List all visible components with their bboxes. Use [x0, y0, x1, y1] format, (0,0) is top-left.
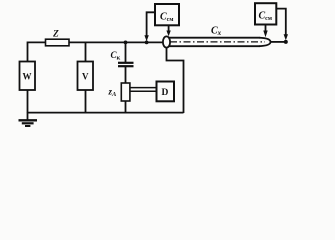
wire CK branch upper [125, 42, 127, 62]
wire bottom rail [28, 112, 184, 114]
wire top rail left segment [27, 41, 46, 43]
svg-text:Cк: Cк [111, 50, 121, 62]
tube left end electrode [163, 36, 170, 47]
wire W branch (top) [27, 42, 29, 62]
wire CK to ZA [125, 66, 127, 83]
wire top rail right segment [69, 41, 164, 43]
node right end [284, 40, 288, 44]
wire V branch (top) [85, 42, 87, 62]
ground [27, 113, 29, 120]
svg-text:Cсм: Cсм [160, 12, 173, 24]
box Csm right (capacitance meter) [255, 3, 276, 24]
wire twin-lead to D [130, 87, 157, 89]
svg-text:Cx: Cx [211, 26, 222, 38]
capacitor Cx tube body [167, 37, 260, 39]
resistor Z [46, 39, 70, 46]
box W [20, 62, 36, 91]
box D (detector) [157, 82, 175, 102]
svg-text:V: V [82, 72, 89, 82]
wire left meter bottom lead [168, 25, 170, 31]
box Csm left (capacitance meter) [155, 4, 179, 25]
capacitor CK [118, 62, 134, 64]
impedance ZA [121, 83, 130, 101]
wire V branch (bottom) [85, 90, 87, 113]
wire left meter loop [147, 12, 155, 36]
box V [78, 62, 94, 91]
wire right meter bottom lead [265, 25, 267, 31]
node junction CK [124, 41, 128, 45]
wire tube left end down to rail [167, 48, 184, 113]
node junction at meter tap [145, 41, 149, 45]
wire tube right lead [271, 41, 286, 43]
wire right meter loop [276, 9, 286, 36]
svg-text:W: W [23, 72, 32, 82]
svg-text:Cсм: Cсм [259, 11, 272, 23]
tube centerline [170, 41, 265, 43]
wire ZA branch (bottom) [125, 101, 127, 113]
wire W branch (bottom) [27, 90, 29, 113]
svg-text:D: D [162, 88, 169, 98]
svg-text:zA: zA [108, 87, 118, 99]
svg-text:Z: Z [52, 30, 59, 40]
